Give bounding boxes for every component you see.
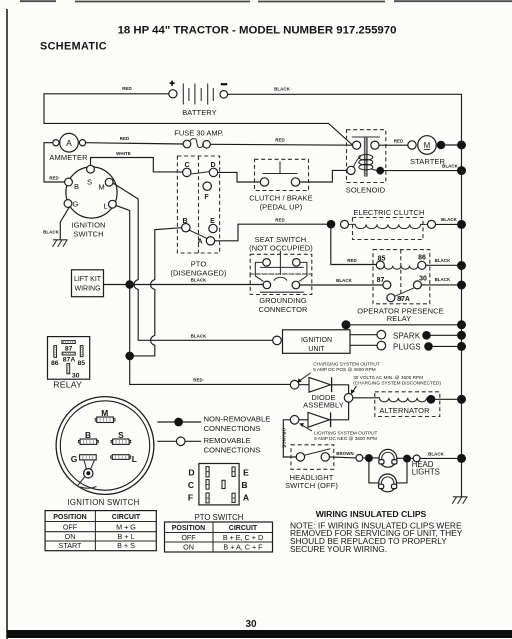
ground symbol right bus <box>452 497 467 504</box>
svg-text:BLACK: BLACK <box>435 277 452 282</box>
svg-text:LIGHTS: LIGHTS <box>412 468 440 477</box>
svg-text:OFF: OFF <box>181 533 196 542</box>
node bus at 30 <box>457 281 466 290</box>
svg-text:L: L <box>132 454 137 464</box>
svg-text:L: L <box>103 202 107 211</box>
svg-text:RED: RED <box>122 86 132 91</box>
head lamp 1 <box>379 449 397 467</box>
wire electric clutch node to relay 85 (RED) <box>331 229 377 265</box>
svg-text:CONNECTIONS: CONNECTIONS <box>204 424 261 433</box>
svg-text:SWITCH (OFF): SWITCH (OFF) <box>285 481 338 490</box>
svg-text:A: A <box>66 138 72 148</box>
svg-text:ALTERNATOR: ALTERNATOR <box>379 406 430 415</box>
svg-text:E: E <box>243 467 249 477</box>
svg-text:G: G <box>71 454 78 464</box>
wire spark plug 1 to bus <box>431 334 457 336</box>
svg-text:RELAY: RELAY <box>387 314 412 323</box>
svg-text:B + S: B + S <box>117 541 135 550</box>
svg-text:SOLENOID: SOLENOID <box>346 186 386 195</box>
svg-text:BLACK: BLACK <box>435 258 452 263</box>
arrow to junction <box>352 386 357 393</box>
wire lamp1 to bus with connector <box>397 457 413 459</box>
key cylinder <box>84 460 95 469</box>
svg-text:B + L: B + L <box>118 532 135 541</box>
svg-text:CIRCUIT: CIRCUIT <box>112 514 141 521</box>
svg-text:IGNITION: IGNITION <box>301 337 332 344</box>
svg-text:B: B <box>241 480 247 490</box>
wire into lamp 1 <box>363 457 379 459</box>
svg-text:M: M <box>424 141 431 150</box>
svg-text:CONNECTIONS: CONNECTIONS <box>204 446 261 455</box>
svg-text:BATTERY: BATTERY <box>182 108 217 117</box>
wire solenoid to starter (RED) <box>379 144 408 146</box>
wire headlight switch to lamps (BROWN) <box>330 457 357 458</box>
ignition switch table <box>45 511 156 551</box>
ignition unit <box>273 330 350 354</box>
svg-text:BLACK: BLACK <box>191 278 208 283</box>
alternator <box>353 392 440 417</box>
wire solenoid to bus (BLACK) <box>384 170 457 172</box>
svg-text:(CHARGING SYSTEM DISCONNECTED): (CHARGING SYSTEM DISCONNECTED) <box>353 380 441 385</box>
svg-text:30 VOLTS AC MIN. @ 3600 RPM: 30 VOLTS AC MIN. @ 3600 RPM <box>353 375 423 380</box>
page border left edge <box>6 9 8 639</box>
wire alternator to bus <box>435 398 457 400</box>
svg-text:CONNECTOR: CONNECTOR <box>258 305 308 314</box>
ground symbol left <box>53 240 68 247</box>
operator presence relay <box>357 250 443 323</box>
svg-text:F: F <box>188 493 193 503</box>
svg-text:PTO SWITCH: PTO SWITCH <box>195 513 244 522</box>
node junction lift kit <box>125 280 134 289</box>
svg-text:SCHEMATIC: SCHEMATIC <box>40 41 107 53</box>
svg-text:IGNITION: IGNITION <box>71 221 105 230</box>
wire clutch/brake to solenoid coil <box>300 170 347 182</box>
legend removable connection <box>158 436 261 455</box>
svg-text:86: 86 <box>51 360 59 367</box>
node bus at solenoid <box>457 166 466 175</box>
svg-text:CIRCUIT: CIRCUIT <box>229 525 258 532</box>
svg-text:BLACK: BLACK <box>336 278 353 283</box>
wire relay 86 to bus (BLACK) <box>426 264 457 266</box>
svg-text:RELAY: RELAY <box>53 379 82 389</box>
svg-text:87A: 87A <box>63 357 76 364</box>
svg-text:A: A <box>197 239 202 246</box>
svg-text:RED: RED <box>49 175 59 180</box>
svg-text:CHARGING SYSTEM OUTPUT: CHARGING SYSTEM OUTPUT <box>313 361 380 366</box>
electric clutch <box>327 208 436 240</box>
svg-text:BLACK: BLACK <box>43 229 60 234</box>
head lamp 2 <box>379 474 397 492</box>
arrow to charging diode <box>299 373 311 382</box>
svg-text:18 HP 44" TRACTOR - MODEL NUMB: 18 HP 44" TRACTOR - MODEL NUMBER 917.255… <box>118 25 397 37</box>
ignition switch rear view <box>56 397 154 495</box>
svg-text:F: F <box>204 194 209 201</box>
wire ammeter to ignition switch B (RED) <box>44 143 65 182</box>
ignition switch (top schematic) <box>64 165 117 238</box>
svg-text:85: 85 <box>78 360 86 367</box>
wire battery positive to solenoid (RED) <box>44 94 353 145</box>
node bus at electric clutch <box>457 220 466 229</box>
svg-text:30: 30 <box>245 619 257 630</box>
wire electric clutch to bus (BLACK) <box>436 223 458 225</box>
svg-text:(NOT OCCUPIED): (NOT OCCUPIED) <box>249 243 313 252</box>
battery B1 <box>169 81 228 117</box>
page border top edge line <box>20 0 512 2</box>
svg-text:CLUTCH / BRAKE: CLUTCH / BRAKE <box>249 193 313 202</box>
wire grounding connector to relay 87 (BLACK) <box>300 284 383 286</box>
svg-text:S: S <box>87 177 92 186</box>
node headlight junction left <box>365 454 373 462</box>
svg-text:POSITION: POSITION <box>172 525 205 532</box>
ammeter A <box>49 133 88 162</box>
lift kit wiring box <box>72 270 104 297</box>
node bus at 86 <box>457 261 466 270</box>
node junction charging <box>125 352 134 361</box>
svg-text:M + G: M + G <box>116 522 136 531</box>
svg-text:ON: ON <box>183 543 194 552</box>
wire ammeter to fuse <box>86 143 184 144</box>
svg-text:87: 87 <box>65 345 73 352</box>
svg-text:LIGHTING SYSTEM OUTPUT: LIGHTING SYSTEM OUTPUT <box>314 430 377 435</box>
starter motor <box>408 136 446 166</box>
svg-text:GROUNDING: GROUNDING <box>259 296 307 305</box>
svg-text:B + E, C + D: B + E, C + D <box>223 533 263 542</box>
PTO connector pinout <box>188 464 249 505</box>
PTO switch (disengaged) <box>170 156 227 278</box>
svg-text:SWITCH: SWITCH <box>73 230 103 239</box>
fuse 30 amp <box>174 129 223 149</box>
wire fuse to solenoid (RED) <box>210 143 352 146</box>
svg-text:REMOVABLE: REMOVABLE <box>204 436 251 445</box>
svg-text:WIRING INSULATED CLIPS: WIRING INSULATED CLIPS <box>316 509 427 519</box>
node bus at alternator <box>457 395 466 404</box>
svg-text:RED: RED <box>347 258 357 263</box>
svg-text:M: M <box>98 182 104 191</box>
svg-text:BLACK: BLACK <box>191 334 208 339</box>
svg-text:ON: ON <box>65 532 76 541</box>
svg-text:STARTER: STARTER <box>410 157 445 166</box>
legend non-removable connection <box>158 414 271 433</box>
svg-text:OFF: OFF <box>63 522 78 531</box>
connector headlight feed <box>356 455 363 462</box>
svg-text:B: B <box>74 182 79 191</box>
svg-text:RED: RED <box>394 139 404 144</box>
svg-text:BLACK: BLACK <box>274 87 291 92</box>
solenoid <box>346 130 386 195</box>
svg-text:A: A <box>243 493 249 503</box>
wire lighting diode to headlight switch (ORANGE) <box>283 420 296 457</box>
svg-text:BROWN: BROWN <box>336 451 354 456</box>
wire ignition M to ignition unit (BLACK) <box>113 183 273 340</box>
wire ignition L down left bus to diode assembly (RED) <box>116 205 290 384</box>
svg-text:S: S <box>118 430 124 440</box>
svg-text:IGNITION SWITCH: IGNITION SWITCH <box>67 498 139 507</box>
svg-text:B + A, C + F: B + A, C + F <box>223 543 263 552</box>
svg-text:SECURE YOUR WIRING.: SECURE YOUR WIRING. <box>290 544 387 554</box>
svg-text:ASSEMBLY: ASSEMBLY <box>303 401 344 410</box>
svg-text:PTO: PTO <box>191 260 207 269</box>
svg-text:87A: 87A <box>397 296 410 303</box>
wire ignition S white to PTO C <box>91 158 183 172</box>
svg-text:WHITE: WHITE <box>116 151 131 156</box>
svg-text:SPARK: SPARK <box>393 331 421 340</box>
svg-text:PLUGS: PLUGS <box>393 342 421 351</box>
svg-text:B: B <box>85 430 91 440</box>
svg-text:ELECTRIC CLUTCH: ELECTRIC CLUTCH <box>353 208 424 217</box>
svg-text:NON-REMOVABLE: NON-REMOVABLE <box>204 414 271 423</box>
headlight switch (off) <box>285 445 338 490</box>
svg-text:RED: RED <box>120 136 130 141</box>
svg-text:RED: RED <box>193 378 203 383</box>
svg-text:WIRING: WIRING <box>74 285 100 292</box>
wire PTO B to charging junction <box>134 228 182 356</box>
clutch/brake switch (pedal up) <box>249 159 313 211</box>
wire relay 30 to bus (BLACK) <box>421 284 457 286</box>
wire PTO D to clutch/brake <box>218 172 261 182</box>
spark plugs <box>350 330 433 351</box>
svg-text:D: D <box>188 467 194 477</box>
svg-text:(PEDAL UP): (PEDAL UP) <box>260 202 303 211</box>
node bus at spark plug 2 <box>457 342 466 351</box>
svg-text:AMMETER: AMMETER <box>49 153 88 162</box>
svg-text:G: G <box>73 200 79 209</box>
node starter output <box>437 141 446 150</box>
svg-text:5 AMP DC NEG @ 3600 RPM: 5 AMP DC NEG @ 3600 RPM <box>314 436 377 441</box>
node bus at starter <box>457 141 466 150</box>
relay legend box <box>48 337 90 390</box>
svg-text:86: 86 <box>418 255 426 262</box>
svg-text:RED: RED <box>275 217 285 222</box>
svg-text:BLACK: BLACK <box>442 163 459 168</box>
svg-text:5 AMP DC POS @ 3600 RPM: 5 AMP DC POS @ 3600 RPM <box>313 367 376 372</box>
wire lift kit junction to grounding connector (BLACK) <box>104 284 264 286</box>
wire headlight loop to lamp 2 <box>369 462 407 483</box>
node bus at ignition unit wire <box>457 320 466 329</box>
svg-text:RED: RED <box>275 138 285 143</box>
node bus at spark plug 1 <box>457 331 466 340</box>
node bus at headlights <box>457 454 466 463</box>
node headlight junction right <box>403 455 411 463</box>
diode assembly <box>290 377 353 427</box>
svg-text:START: START <box>59 541 83 550</box>
ground bus right side <box>461 94 463 496</box>
svg-text:FUSE 30 AMP.: FUSE 30 AMP. <box>174 129 223 138</box>
wire battery negative to right bus (BLACK) <box>228 93 462 95</box>
page border bottom black bar <box>7 630 512 638</box>
svg-text:30: 30 <box>419 275 427 282</box>
svg-text:ORANGE: ORANGE <box>281 428 286 448</box>
wire starter to bus <box>445 144 457 146</box>
node ignition unit top <box>342 320 351 329</box>
wire ignition unit to bus <box>351 324 458 326</box>
wiring insulated clips note <box>290 509 463 554</box>
svg-text:C: C <box>188 480 194 490</box>
wire PTO A to electric clutch (RED) <box>215 224 327 241</box>
svg-text:UNIT: UNIT <box>308 346 325 353</box>
grounding connector <box>250 274 312 314</box>
PTO switch table <box>165 513 273 552</box>
svg-text:POSITION: POSITION <box>53 514 86 521</box>
wire ignition G to ground (BLACK) <box>60 207 69 240</box>
svg-text:BLACK: BLACK <box>428 452 445 457</box>
wire spark plug 2 to bus <box>433 345 457 347</box>
svg-text:(DISENGAGED): (DISENGAGED) <box>170 269 227 278</box>
svg-text:BLACK: BLACK <box>441 217 458 222</box>
arrow to lighting diode <box>301 424 312 431</box>
seat switch (not occupied) <box>249 235 313 281</box>
svg-text:LIFT KIT: LIFT KIT <box>74 276 102 283</box>
